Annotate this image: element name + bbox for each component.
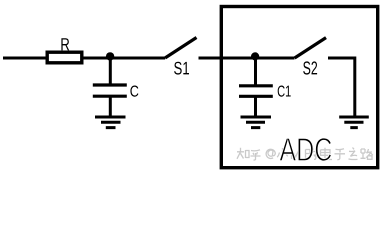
- ADC box: [221, 7, 377, 168]
- capacitor C1: [239, 86, 273, 97]
- switch S2 arm: [295, 38, 326, 58]
- 电: [321, 148, 333, 160]
- ground (under C): [95, 117, 126, 128]
- 小: [277, 148, 287, 159]
- watermark 知乎 @小M的电子之路 (simplified gray strokes): [237, 148, 373, 161]
- @: [266, 149, 275, 158]
- M: [292, 149, 300, 159]
- wire: input lead: [3, 57, 46, 60]
- 子: [335, 149, 346, 160]
- ground (right, inside ADC): [339, 117, 369, 128]
- 路: [361, 149, 373, 159]
- 的: [306, 148, 318, 159]
- wire: junction down to capacitor C: [109, 58, 112, 84]
- label ADC: [279, 138, 331, 161]
- wire: S1 contact to S2 hinge (into ADC box): [199, 57, 295, 60]
- resistor R: [47, 52, 82, 63]
- 之: [349, 148, 358, 160]
- switch S1 arm: [165, 38, 197, 59]
- label C1: [278, 86, 291, 97]
- wire: junction down to capacitor C1: [254, 58, 257, 85]
- label S2: [303, 61, 317, 74]
- 知: [237, 148, 249, 159]
- wire: S2 contact to right ground (L-shape): [328, 58, 355, 116]
- label S1: [174, 62, 189, 75]
- label R: [61, 38, 69, 50]
- wire: capacitor C to ground: [109, 96, 112, 116]
- node junction dot (C1 tap): [251, 52, 259, 60]
- node junction dot (C tap): [106, 52, 114, 60]
- ground (under C1): [241, 117, 272, 128]
- capacitor C: [93, 85, 127, 96]
- label C: [130, 86, 138, 97]
- wire: resistor to S1 hinge: [84, 57, 166, 60]
- wire: capacitor C1 to ground: [254, 96, 257, 116]
- 乎: [251, 150, 261, 160]
